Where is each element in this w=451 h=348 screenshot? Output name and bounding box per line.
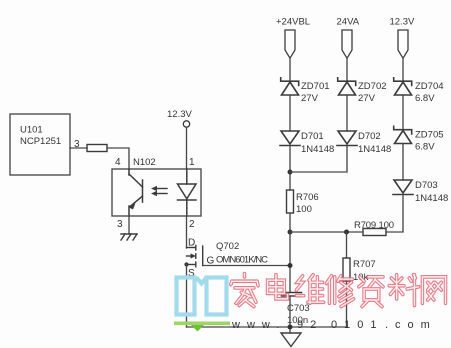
- zener ZD705: [394, 126, 444, 152]
- svg-text:R709 100: R709 100: [354, 220, 394, 231]
- wire 12.3V to ZD704: [402, 58, 404, 82]
- svg-text:R707: R707: [353, 259, 376, 270]
- resistor R709: [354, 220, 394, 236]
- svg-text:ZD701: ZD701: [301, 81, 330, 92]
- svg-text:12.3V: 12.3V: [390, 17, 415, 28]
- IC U101: [10, 114, 70, 175]
- svg-text:ZD704: ZD704: [415, 81, 444, 92]
- wire ZD701 to D701: [289, 95, 291, 131]
- node junction D702 join: [288, 170, 293, 175]
- wire D701 to R706: [289, 146, 291, 191]
- svg-text:24VA: 24VA: [337, 17, 360, 28]
- svg-text:1N4148: 1N4148: [358, 144, 391, 155]
- svg-text:R706: R706: [296, 192, 319, 203]
- zener ZD701: [281, 78, 330, 104]
- svg-text:6.8V: 6.8V: [415, 142, 435, 153]
- resistor R706: [287, 190, 319, 215]
- terminal 24VA: [337, 17, 360, 59]
- zener ZD702: [338, 78, 387, 104]
- svg-text:1N4148: 1N4148: [415, 193, 448, 204]
- svg-text:3: 3: [117, 219, 123, 230]
- svg-text:Q702: Q702: [216, 241, 239, 252]
- wire Q702 source down: [186, 265, 188, 328]
- wire R706 to C703: [289, 213, 291, 293]
- capacitor C703: [282, 293, 310, 327]
- transistor Q702 (MOSFET): [184, 238, 268, 280]
- wire +24VBL to ZD701: [289, 58, 291, 82]
- wire 12.3V to N102 pin1: [186, 127, 188, 169]
- wire ZD705 to D703: [402, 144, 404, 181]
- resistor R707: [343, 258, 376, 283]
- svg-text:4: 4: [115, 157, 121, 168]
- svg-text:D701: D701: [301, 131, 324, 142]
- terminal 12.3V: [390, 17, 415, 59]
- node junction R707 top: [344, 230, 349, 235]
- svg-text:+24VBL: +24VBL: [276, 17, 310, 28]
- light arrows: [151, 186, 167, 196]
- optocoupler N102 box: [112, 157, 201, 216]
- bottom rail wire: [187, 326, 347, 328]
- svg-text:1: 1: [189, 157, 195, 168]
- svg-text:ZD702: ZD702: [358, 81, 387, 92]
- wire N102 pin3 to ground: [128, 216, 130, 234]
- svg-text:www.: www.: [231, 319, 286, 331]
- terminal circle 12.3V: [183, 121, 189, 127]
- wire R707 to bottom rail: [346, 281, 348, 327]
- terminal +24VBL: [276, 17, 310, 59]
- svg-text:D703: D703: [415, 180, 438, 191]
- diode D702: [337, 131, 391, 155]
- wire U101 pin3 to resistor: [70, 147, 87, 149]
- resistor (series, unlabeled): [87, 145, 107, 152]
- wire resistor to N102 pin4: [107, 148, 129, 169]
- zener ZD704: [394, 78, 444, 104]
- wire ZD702 to D702: [346, 95, 348, 131]
- ground (triangle): [281, 333, 301, 347]
- wire node to R707: [346, 232, 348, 258]
- wire Q702 gate to node: [203, 265, 290, 267]
- LED in N102: [178, 169, 197, 216]
- wire D703 to R709: [386, 195, 403, 233]
- svg-text:2: 2: [189, 219, 195, 230]
- node junction bottom rail: [288, 325, 293, 330]
- svg-text:NCP1251: NCP1251: [20, 136, 61, 147]
- phototransistor in N102: [129, 169, 143, 216]
- svg-text:6.8V: 6.8V: [415, 93, 435, 104]
- svg-text:0101: 0101: [331, 319, 383, 331]
- svg-text:U101: U101: [20, 125, 43, 136]
- svg-text:.com: .com: [385, 319, 437, 331]
- node junction to R709: [288, 230, 293, 235]
- wire C703 to ground: [289, 296, 291, 333]
- wire 24VA to ZD702: [346, 58, 348, 82]
- svg-text:92: 92: [297, 319, 323, 331]
- wire R709 to node: [290, 231, 363, 233]
- svg-text:OMN601K/NC: OMN601K/NC: [216, 255, 268, 266]
- wire N102 pin2 to Q702 drain: [186, 216, 188, 248]
- svg-text:12.3V: 12.3V: [167, 109, 192, 120]
- svg-text:100: 100: [296, 204, 312, 215]
- wire D702 to node: [290, 146, 347, 173]
- watermark book logo: [174, 278, 230, 332]
- watermark url: [231, 319, 437, 331]
- node junction gate wire: [288, 263, 293, 268]
- wire ZD704 to ZD705: [402, 95, 404, 130]
- svg-text:D: D: [188, 238, 195, 249]
- svg-text:1N4148: 1N4148: [301, 144, 334, 155]
- diode D703: [393, 180, 448, 204]
- chassis ground: [121, 234, 137, 240]
- svg-text:D702: D702: [358, 131, 381, 142]
- svg-text:27V: 27V: [358, 93, 376, 104]
- svg-text:N102: N102: [133, 157, 156, 168]
- svg-text:ZD705: ZD705: [415, 130, 444, 141]
- diode D701: [280, 131, 334, 155]
- svg-text:27V: 27V: [301, 93, 319, 104]
